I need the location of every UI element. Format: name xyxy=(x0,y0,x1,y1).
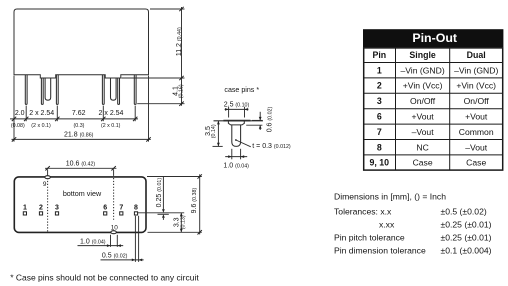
second witness line xyxy=(158,213,169,215)
svg-text:* Case pins should not be conn: * Case pins should not be connected to a… xyxy=(10,272,199,282)
bottom view body xyxy=(14,177,146,233)
svg-text:±0.5 (±0.02): ±0.5 (±0.02) xyxy=(441,207,487,217)
svg-text:1: 1 xyxy=(23,204,27,211)
svg-text:On/Off: On/Off xyxy=(410,96,436,106)
svg-text:2 x 2.54: 2 x 2.54 xyxy=(99,110,124,117)
svg-text:21.8 (0.86): 21.8 (0.86) xyxy=(64,131,94,138)
svg-text:10: 10 xyxy=(111,225,119,232)
0.5 dim bottom view xyxy=(101,216,144,262)
pin 8 side xyxy=(134,75,136,105)
svg-text:2 x 2.54: 2 x 2.54 xyxy=(29,110,54,117)
svg-text:(0.16): (0.16) xyxy=(179,84,185,98)
svg-text:–Vin (GND): –Vin (GND) xyxy=(400,65,444,75)
svg-text:NC: NC xyxy=(416,142,428,152)
svg-text:8: 8 xyxy=(377,142,382,152)
svg-text:6: 6 xyxy=(103,204,107,211)
svg-text:2: 2 xyxy=(39,204,43,211)
svg-text:–Vout: –Vout xyxy=(412,127,435,137)
svg-text:1.0 (0.04): 1.0 (0.04) xyxy=(223,162,249,169)
pin 7 pad xyxy=(120,212,123,215)
svg-text:6: 6 xyxy=(377,112,382,122)
svg-text:7.62: 7.62 xyxy=(72,110,86,117)
ext line pin8 xyxy=(134,106,136,122)
table grid xyxy=(364,48,503,170)
shank with round bottom xyxy=(232,125,241,146)
svg-text:2.0: 2.0 xyxy=(15,110,25,117)
pin 6 side xyxy=(102,75,104,105)
pin 2 pad xyxy=(39,212,42,215)
10.6 dim top of bottom view xyxy=(45,168,116,176)
svg-text:3: 3 xyxy=(377,96,382,106)
dim line pitches xyxy=(10,118,138,120)
svg-text:Common: Common xyxy=(459,127,494,137)
svg-text:2: 2 xyxy=(377,81,382,91)
svg-text:Tolerances: x.x: Tolerances: x.x xyxy=(334,207,392,217)
dim line 21.8 xyxy=(12,138,151,140)
svg-text:Dual: Dual xyxy=(467,50,486,60)
svg-text:9.6 (0.38): 9.6 (0.38) xyxy=(191,188,198,214)
svg-text:9: 9 xyxy=(43,181,47,188)
svg-text:Pin pitch tolerance: Pin pitch tolerance xyxy=(334,233,405,243)
svg-text:0.25 (0.01): 0.25 (0.01) xyxy=(156,178,163,208)
case pin 9 side xyxy=(45,78,51,100)
svg-text:+Vout: +Vout xyxy=(411,112,434,122)
svg-text:7: 7 xyxy=(377,127,382,137)
svg-text:±0.25 (±0.01): ±0.25 (±0.01) xyxy=(441,220,492,230)
arrows 2.5 xyxy=(225,108,248,111)
case pin 10 dotted axis xyxy=(113,178,115,221)
svg-text:–Vin (GND): –Vin (GND) xyxy=(454,65,498,75)
pin 8 pad xyxy=(134,212,137,215)
svg-text:(0.13): (0.13) xyxy=(181,215,187,229)
pin 6 pad xyxy=(104,212,107,215)
svg-text:t = 0.3 (0.012): t = 0.3 (0.012) xyxy=(252,143,291,150)
case pin 10 pad xyxy=(111,231,116,234)
svg-text:7: 7 xyxy=(119,204,123,211)
svg-text:Pin-Out: Pin-Out xyxy=(412,31,457,45)
svg-text:Case: Case xyxy=(413,158,433,168)
dimension lines: side view bottom xyxy=(10,76,151,142)
svg-text:0.6 (0.02): 0.6 (0.02) xyxy=(267,107,274,133)
ext line pin tips xyxy=(137,103,184,105)
svg-text:(2 x 0.1): (2 x 0.1) xyxy=(101,123,121,129)
ticks vert dim xyxy=(179,7,183,106)
case pin 9 pad xyxy=(45,176,50,179)
svg-text:9, 10: 9, 10 xyxy=(370,158,390,168)
svg-text:Case: Case xyxy=(466,158,486,168)
svg-text:3: 3 xyxy=(55,204,59,211)
svg-text:–Vout: –Vout xyxy=(465,142,488,152)
flange disc edge-on xyxy=(223,120,250,122)
svg-text:Single: Single xyxy=(409,50,436,60)
svg-text:(0.3): (0.3) xyxy=(74,123,85,129)
svg-text:10.6 (0.42): 10.6 (0.42) xyxy=(66,161,96,168)
tick marks dim line 1 xyxy=(12,117,151,142)
pin 3 pad xyxy=(55,212,58,215)
svg-text:+Vin (Vcc): +Vin (Vcc) xyxy=(456,81,496,91)
pin 7 side xyxy=(118,78,120,104)
module surface line xyxy=(214,120,264,122)
pin 1 side xyxy=(25,75,27,105)
dim line 2.5 xyxy=(225,108,249,110)
vert dim line xyxy=(181,7,183,106)
svg-text:8: 8 xyxy=(134,204,138,211)
witness lines 2.5 dim xyxy=(228,107,230,118)
ext line pin3 xyxy=(56,106,58,122)
case pin 10 side xyxy=(111,78,117,100)
pin 3 side xyxy=(56,75,58,105)
1.0 dim bottom view xyxy=(78,235,124,247)
svg-text:2.5 (0.10): 2.5 (0.10) xyxy=(224,101,250,108)
svg-text:On/Off: On/Off xyxy=(464,96,490,106)
flange body trapezoid xyxy=(228,122,244,125)
svg-text:case pins *: case pins * xyxy=(224,86,259,94)
svg-text:+Vout: +Vout xyxy=(465,112,488,122)
svg-text:(0.08): (0.08) xyxy=(11,123,25,129)
3.5 dim xyxy=(213,121,223,147)
svg-text:±0.25 (±0.01): ±0.25 (±0.01) xyxy=(441,233,492,243)
ext line body right xyxy=(148,76,150,142)
t=0.3 leader xyxy=(235,139,237,141)
pin 2 side xyxy=(41,78,43,104)
ext line pin1 xyxy=(25,106,27,122)
9.6 dim right of bottom view xyxy=(147,174,202,234)
ext line body left xyxy=(13,76,15,142)
svg-text:Pin: Pin xyxy=(372,50,386,60)
0.25 dim xyxy=(138,177,184,220)
3.3 dim xyxy=(180,213,182,233)
svg-text:1.0 (0.04): 1.0 (0.04) xyxy=(80,238,106,245)
0.6 dim xyxy=(246,112,262,130)
svg-text:+Vin (Vcc): +Vin (Vcc) xyxy=(403,81,443,91)
svg-text:±0.1 (±0.004): ±0.1 (±0.004) xyxy=(441,246,492,256)
dimension: side view right (11.2 / 4.1) xyxy=(122,7,185,106)
svg-text:(0.14): (0.14) xyxy=(211,124,217,138)
svg-text:0.5 (0.02): 0.5 (0.02) xyxy=(102,253,128,260)
case pin 9 dotted axis xyxy=(47,178,49,232)
tick marks dim line 21.8 xyxy=(12,137,16,141)
svg-text:11.2 (0.44): 11.2 (0.44) xyxy=(176,27,183,56)
svg-text:bottom view: bottom view xyxy=(63,189,102,198)
1.0 dim detail xyxy=(225,149,247,160)
svg-text:(2 x 0.1): (2 x 0.1) xyxy=(31,123,51,129)
ext line pin6 xyxy=(102,106,104,122)
table header band xyxy=(363,29,503,47)
svg-text:Dimensions in [mm], () = Inch: Dimensions in [mm], () = Inch xyxy=(334,192,446,202)
svg-text:x.xx: x.xx xyxy=(379,220,395,230)
module body side view outline xyxy=(14,9,149,78)
ext line body top xyxy=(150,8,185,10)
ext line boss bottom xyxy=(122,77,185,79)
svg-text:Pin dimension tolerance: Pin dimension tolerance xyxy=(334,246,426,256)
pin 1 pad xyxy=(23,212,26,215)
pin8 row witness line xyxy=(138,212,184,214)
svg-text:1: 1 xyxy=(377,65,382,75)
